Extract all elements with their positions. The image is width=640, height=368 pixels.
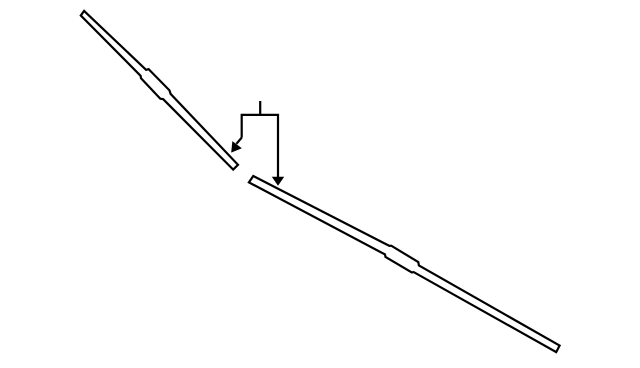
pointer bracket [242, 115, 278, 177]
left arrowhead [231, 141, 242, 153]
left leader diagonal [236, 138, 241, 144]
lower rod section (shaft with joint collar) [249, 176, 560, 352]
right arrowhead [272, 177, 284, 186]
pointer bracket top tick [259, 101, 261, 115]
upper rod section (tapered shaft with joint collar) [81, 11, 238, 170]
